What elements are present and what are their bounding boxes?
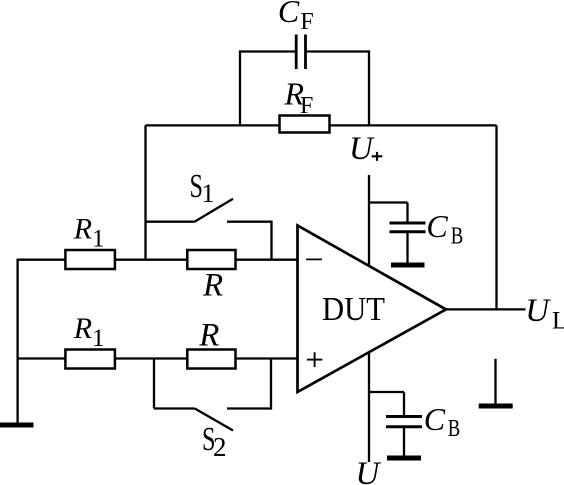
capacitor CB bottom	[386, 417, 422, 427]
label R top	[202, 268, 223, 304]
svg-text:C: C	[426, 208, 448, 244]
label CF	[278, 0, 314, 35]
wire CF box right vertical	[368, 50, 370, 125]
wire feedback right vertical	[495, 125, 497, 309]
svg-text:U: U	[525, 293, 551, 329]
capacitor CF	[296, 35, 305, 70]
svg-text:R: R	[73, 312, 92, 345]
wire U+ CB branch	[369, 201, 408, 203]
wire top CF right	[306, 50, 369, 52]
wire output	[446, 308, 526, 310]
resistor R top	[187, 250, 235, 269]
wire ground right stub	[494, 359, 496, 405]
svg-text:DUT: DUT	[322, 291, 385, 328]
svg-text:C: C	[424, 401, 446, 437]
wire U+ supply vertical	[368, 175, 370, 266]
capacitor CB top	[390, 223, 426, 232]
wire inverting input line	[18, 259, 298, 261]
label R1 bottom	[73, 312, 105, 352]
svg-text:2: 2	[213, 432, 227, 462]
switch S2	[154, 359, 271, 431]
label U+	[349, 131, 382, 167]
wire CF box left vertical	[239, 50, 241, 125]
wire U- CB branch	[369, 391, 404, 393]
resistor R bottom	[187, 350, 235, 369]
op-amp DUT	[298, 226, 447, 393]
svg-text:U: U	[349, 131, 375, 167]
label R1 top	[73, 212, 105, 252]
wire feedback left vertical	[144, 125, 146, 259]
svg-text:F: F	[300, 9, 313, 35]
svg-text:1: 1	[92, 226, 105, 253]
label CB bottom	[424, 401, 461, 442]
svg-text:F: F	[300, 93, 313, 119]
label RF	[284, 76, 314, 120]
wire RF horizontal	[146, 124, 497, 126]
ground CB top	[391, 263, 425, 268]
label S1	[190, 168, 215, 208]
svg-text:1: 1	[92, 325, 105, 352]
svg-text:1: 1	[202, 179, 215, 208]
ground left	[0, 423, 34, 428]
wire U- supply vertical	[368, 352, 370, 462]
resistor R1 top	[65, 250, 115, 269]
svg-text:B: B	[448, 416, 461, 442]
ground CB bottom	[387, 456, 421, 461]
switch S1	[146, 199, 272, 260]
label CB top	[426, 208, 463, 250]
svg-text:R: R	[198, 317, 219, 353]
op-amp plus pin	[307, 352, 322, 367]
svg-text:B: B	[451, 224, 464, 250]
wire top CF left	[240, 50, 296, 52]
resistor R1 bottom	[65, 350, 115, 369]
wire left rail	[16, 259, 18, 425]
resistor RF	[280, 116, 330, 133]
wire noninverting input line	[18, 357, 298, 359]
svg-text:L: L	[552, 308, 564, 335]
svg-text:R: R	[73, 212, 92, 245]
op-amp minus pin	[306, 258, 322, 260]
label S2	[202, 421, 227, 462]
ground right	[479, 404, 513, 409]
svg-text:U: U	[356, 456, 382, 485]
label UL	[525, 293, 564, 335]
svg-text:R: R	[202, 268, 223, 304]
label R bottom	[198, 317, 219, 353]
svg-text:C: C	[278, 0, 300, 29]
